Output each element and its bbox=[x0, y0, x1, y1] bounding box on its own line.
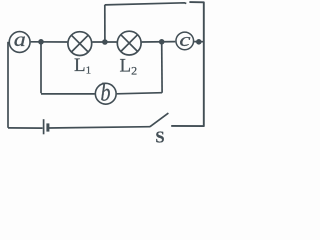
wire: main row, meter c to right vertical (through node J4) bbox=[194, 41, 203, 43]
svg-text:a: a bbox=[14, 28, 26, 51]
lamp L1: circle bbox=[68, 32, 92, 56]
switch S: open blade bbox=[150, 113, 169, 127]
wire: left vertical from ammeter a down to bottom rail bbox=[7, 42, 9, 128]
node J4 (junction dot after meter c) bbox=[196, 39, 202, 45]
wire: vertical drop from top rail to node J2 bbox=[104, 5, 106, 42]
svg-text:S: S bbox=[155, 127, 164, 145]
lamp L2: circle bbox=[117, 31, 141, 55]
wire: bottom rail left segment to battery bbox=[8, 127, 43, 129]
node J2 (junction dot between L1 and L2) bbox=[102, 39, 108, 45]
meter a: circle bbox=[9, 32, 30, 53]
wire: main row, ammeter a to lamp L1 (through node J1) bbox=[31, 41, 68, 43]
lamp L1: X cross bbox=[71, 35, 88, 52]
wire: main row, lamp L1 to lamp L2 (through node J2) bbox=[92, 41, 117, 43]
node J1 (junction dot after meter a) bbox=[38, 39, 44, 45]
wire: top rail left segment (with drooping end at break) bbox=[105, 3, 187, 5]
meter c: circle bbox=[176, 32, 194, 50]
svg-text:b: b bbox=[101, 79, 111, 107]
battery B1: long plate bbox=[43, 119, 45, 134]
wire: main row, lamp L2 to meter c (through node J3) bbox=[142, 41, 176, 43]
wire: meter b row, right segment to corner bbox=[117, 93, 162, 94]
battery B1: short thick plate bbox=[46, 123, 49, 131]
svg-text:L2: L2 bbox=[120, 55, 138, 77]
meter b: circle bbox=[95, 83, 116, 104]
svg-text:c: c bbox=[179, 29, 190, 50]
wire: switch right contact, right vertical and top-right segment bbox=[171, 2, 204, 126]
lamp L2: X cross bbox=[121, 35, 138, 52]
wire: branch vertical from node J1 down to meter b row bbox=[40, 42, 42, 93]
node J3 (junction dot after L2) bbox=[159, 39, 165, 45]
svg-text:L1: L1 bbox=[74, 55, 91, 77]
wire: meter b row, left segment bbox=[41, 93, 95, 95]
wire: bottom rail from battery to switch bbox=[49, 127, 150, 128]
wire: branch vertical from corner up to node J3 bbox=[161, 42, 163, 93]
